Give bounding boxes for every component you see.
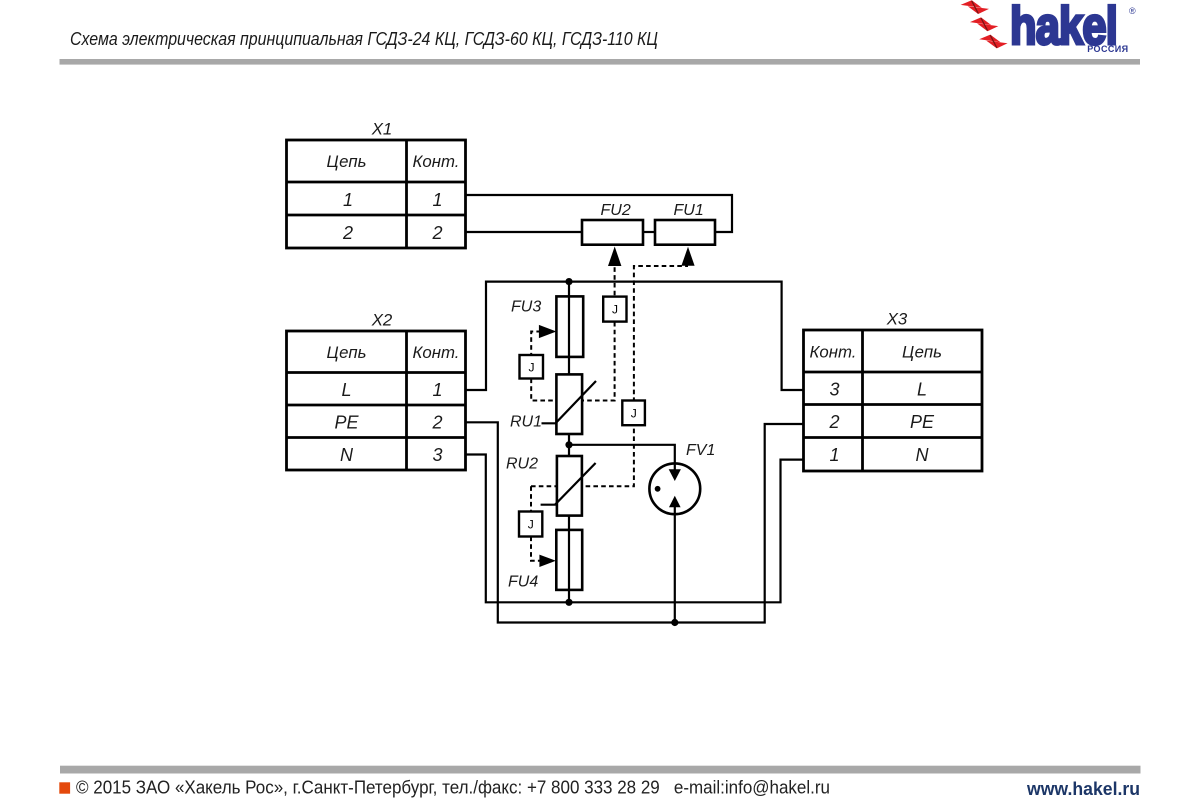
svg-text:J: J bbox=[529, 361, 535, 375]
wire X1 contact 2 to FU2 left bbox=[466, 231, 583, 233]
thermal disconnect box J3 bbox=[622, 401, 645, 426]
connector X3 labels bbox=[810, 310, 942, 466]
svg-text:Схема электрическая принципиал: Схема электрическая принципиальная ГСДЗ-… bbox=[70, 28, 658, 49]
fuse FU2 bbox=[582, 220, 643, 245]
connector table X3 bbox=[804, 330, 983, 471]
footer orange bullet bbox=[59, 782, 70, 793]
wire N bus: X2.3 down across to X3.1 bbox=[466, 455, 804, 603]
fuse FU3 bbox=[556, 296, 583, 357]
arrow into FU4 bbox=[539, 555, 556, 567]
dashed line arrow->J1 (FU3 trip line) bbox=[531, 332, 541, 356]
svg-text:3: 3 bbox=[829, 380, 839, 400]
svg-text:Цепь: Цепь bbox=[327, 343, 367, 362]
svg-text:RU1: RU1 bbox=[510, 414, 542, 431]
svg-text:2: 2 bbox=[828, 412, 839, 432]
svg-text:FU3: FU3 bbox=[511, 299, 541, 316]
wire main vertical through FU3 RU1 RU2 FU4 bbox=[568, 282, 570, 603]
arrow into FU1 bbox=[681, 247, 694, 266]
svg-text:J: J bbox=[631, 406, 637, 420]
svg-text:Конт.: Конт. bbox=[413, 343, 460, 362]
wires bbox=[466, 195, 804, 623]
connector table X1 bbox=[287, 140, 466, 248]
svg-text:J: J bbox=[528, 518, 534, 532]
varistor RU1 bbox=[542, 374, 597, 434]
svg-text:PE: PE bbox=[334, 413, 359, 433]
logo lightning bolt 1 bbox=[961, 0, 989, 14]
svg-text:Цепь: Цепь bbox=[327, 152, 367, 171]
svg-text:X3: X3 bbox=[886, 310, 908, 329]
surge arrester FV1 bbox=[649, 463, 700, 514]
fuse FU4 bbox=[556, 530, 582, 590]
junction node FV1 on PE bus bbox=[671, 619, 678, 626]
wire FU2 to FU1 bbox=[643, 231, 655, 233]
wire PE bus: X2.2 down across to X3.2 bbox=[466, 422, 804, 622]
svg-text:J: J bbox=[612, 303, 618, 317]
svg-text:N: N bbox=[340, 445, 354, 465]
varistor RU2 bbox=[541, 456, 596, 516]
svg-text:Конт.: Конт. bbox=[413, 152, 460, 171]
arrow into FU2 bbox=[608, 247, 621, 267]
thermal sense dashed line FU3/J to RU1 bbox=[531, 266, 688, 561]
connector X2 labels bbox=[327, 311, 460, 466]
junction node between RU1 and RU2 bbox=[565, 441, 572, 448]
svg-text:L: L bbox=[341, 380, 351, 400]
wire FV1 bottom to PE bus bbox=[674, 507, 676, 623]
header rule bar bbox=[60, 59, 1141, 65]
svg-text:®: ® bbox=[1129, 6, 1136, 16]
svg-text:X1: X1 bbox=[371, 120, 393, 139]
thermal disconnect box J1 bbox=[520, 355, 544, 379]
svg-text:FU4: FU4 bbox=[508, 574, 538, 591]
logo lightning bolt 2 bbox=[970, 17, 998, 31]
junction node at top bus bbox=[565, 278, 572, 285]
svg-text:1: 1 bbox=[829, 445, 839, 465]
dashed line RU2 sense -> FU1 arrow bbox=[531, 266, 688, 486]
svg-text:FU2: FU2 bbox=[601, 202, 631, 219]
svg-text:N: N bbox=[916, 445, 930, 465]
svg-text:X2: X2 bbox=[371, 311, 393, 330]
svg-text:3: 3 bbox=[432, 445, 442, 465]
svg-text:FU1: FU1 bbox=[674, 202, 704, 219]
svg-text:www.hakel.ru: www.hakel.ru bbox=[1026, 778, 1140, 799]
arrow into FU3 bbox=[539, 325, 557, 338]
thermal disconnect box J2 bbox=[603, 297, 626, 322]
svg-text:1: 1 bbox=[343, 190, 353, 210]
connector X1 labels bbox=[327, 120, 460, 244]
svg-text:FV1: FV1 bbox=[686, 442, 715, 459]
svg-text:РОССИЯ: РОССИЯ bbox=[1087, 44, 1128, 54]
svg-text:Конт.: Конт. bbox=[810, 343, 857, 362]
svg-text:Цепь: Цепь bbox=[902, 343, 942, 362]
fuse FU1 bbox=[655, 220, 715, 245]
footer rule bar bbox=[60, 766, 1141, 774]
connector table X2 bbox=[287, 331, 466, 470]
svg-text:PE: PE bbox=[910, 412, 935, 432]
svg-text:1: 1 bbox=[432, 380, 442, 400]
svg-text:2: 2 bbox=[431, 223, 442, 243]
dashed line J4 -> FU4 arrow bbox=[531, 537, 540, 561]
dashed line J1->RU1 sense and up to FU2 arrow bbox=[531, 266, 614, 401]
thermal disconnect box J4 bbox=[519, 512, 542, 537]
svg-text:2: 2 bbox=[431, 413, 442, 433]
dashed line RU2 sense down to J4 bbox=[530, 486, 532, 511]
svg-text:L: L bbox=[917, 380, 927, 400]
svg-text:© 2015 ЗАО «Хакель Рос», г.Сан: © 2015 ЗАО «Хакель Рос», г.Санкт-Петербу… bbox=[76, 777, 830, 798]
logo lightning bolt 3 bbox=[979, 35, 1007, 49]
wire L bus: X2.1 up and across to X3.3 bbox=[466, 282, 804, 390]
wire X1 contact 1 to FU1 right bbox=[466, 195, 733, 232]
wire mid node to FV1 top bbox=[569, 445, 675, 471]
svg-text:1: 1 bbox=[432, 190, 442, 210]
svg-text:RU2: RU2 bbox=[506, 456, 538, 473]
junction node at N bus bbox=[565, 599, 572, 606]
svg-text:2: 2 bbox=[342, 223, 353, 243]
